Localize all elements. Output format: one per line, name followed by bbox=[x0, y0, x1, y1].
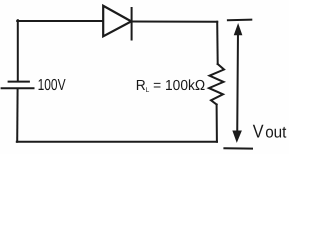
Vout reference dash top bbox=[228, 19, 251, 22]
wire top left segment bbox=[17, 20, 103, 22]
wire top right segment bbox=[132, 21, 218, 23]
battery V1 long plate (bottom) bbox=[2, 87, 34, 89]
svg-text:RL = 100kΩ: RL = 100kΩ bbox=[136, 78, 206, 94]
resistor RL zigzag bbox=[209, 64, 224, 105]
Vout measurement arrow shaft bbox=[236, 30, 239, 136]
wire bottom horizontal bbox=[17, 141, 217, 143]
svg-text:out: out bbox=[265, 124, 287, 142]
Vout arrow head bottom bbox=[233, 131, 241, 142]
Vout arrow head top bbox=[234, 24, 242, 35]
svg-text:V: V bbox=[253, 121, 264, 142]
wire left vertical lower bbox=[16, 89, 18, 142]
battery V1 short plate (top) bbox=[9, 81, 29, 83]
wire right vertical upper bbox=[216, 22, 219, 64]
wire left vertical upper bbox=[17, 20, 19, 80]
diode D1 triangle (anode) bbox=[103, 6, 131, 37]
wire right vertical lower bbox=[216, 105, 218, 142]
diode D1 cathode bar bbox=[131, 8, 133, 40]
svg-text:100V: 100V bbox=[38, 77, 66, 94]
Vout reference dash bottom bbox=[224, 147, 252, 149]
